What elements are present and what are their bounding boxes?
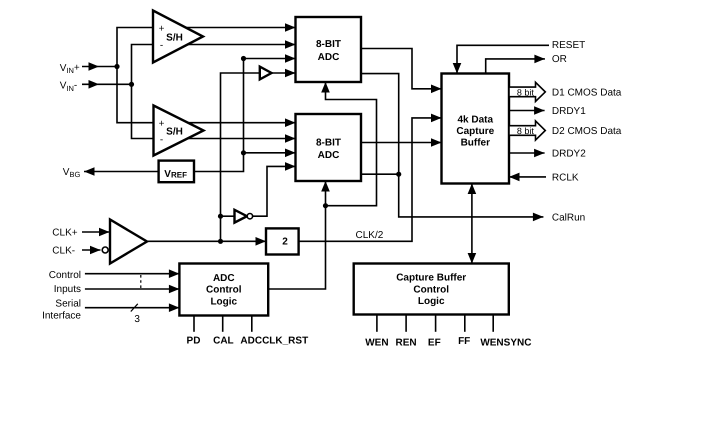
wire S/H1 output1 to ADC1	[186, 27, 296, 29]
svg-text:CLK+: CLK+	[52, 227, 77, 238]
box VREF bandgap reference	[159, 161, 194, 183]
arrowhead control row1	[169, 269, 180, 278]
wire CLK+ lead	[82, 231, 110, 233]
box ADC Control Logic	[179, 264, 268, 316]
box Capture Buffer Control Logic	[354, 264, 509, 315]
svg-text:8-BIT: 8-BIT	[316, 138, 341, 149]
arrowhead OR	[534, 55, 545, 64]
pin stub WEN	[376, 315, 378, 332]
svg-text:+: +	[159, 24, 165, 35]
arrowhead ADC1 in3	[285, 54, 296, 63]
wire ADC2 output2 join	[361, 173, 399, 175]
node VREF top junction	[241, 56, 246, 61]
wire VREF branch to ADC2	[244, 152, 296, 154]
wire S/H1 output2 to ADC1	[186, 44, 296, 46]
svg-text:D1 CMOS Data: D1 CMOS Data	[552, 87, 622, 98]
svg-text:Serial: Serial	[55, 298, 81, 309]
wire 4k buffer to capture control	[471, 184, 473, 264]
pin stub REN	[405, 315, 407, 332]
node VREF mid junction	[241, 150, 246, 155]
svg-text:4k Data: 4k Data	[458, 114, 494, 125]
arrowhead CLK+	[99, 228, 110, 237]
svg-text:REN: REN	[396, 337, 417, 348]
svg-text:Inputs: Inputs	[54, 284, 81, 295]
arrowhead VIN+	[89, 62, 100, 71]
wire VREF net	[194, 59, 296, 172]
wire ADC1 output1 to 4k buffer	[361, 49, 442, 89]
wire RESET into 4k buffer	[457, 45, 549, 73]
pin stub PD	[193, 316, 195, 332]
wire CLK- lead	[82, 249, 101, 251]
svg-text:CalRun: CalRun	[552, 212, 585, 223]
arrowhead ADC1 in1	[285, 23, 296, 32]
svg-text:Logic: Logic	[210, 297, 237, 308]
arrowhead VIN-	[89, 80, 100, 89]
arrowhead capture control down	[468, 253, 477, 264]
wire VIN+ lead	[82, 66, 117, 68]
wire ADC1 output2 down to CalRun	[361, 74, 543, 217]
wire DRDY1	[509, 110, 545, 112]
node inverter tap junction	[218, 214, 223, 219]
wire VIN+ vertical to S/H inputs	[117, 28, 154, 123]
wire VIN- lead	[82, 83, 132, 85]
svg-text:OR: OR	[552, 54, 567, 65]
svg-text:FF: FF	[458, 336, 470, 347]
node clock line junction	[218, 239, 223, 244]
node VIN- junction	[129, 82, 134, 87]
svg-text:-: -	[160, 40, 163, 51]
node VIN+ junction	[114, 64, 119, 69]
bus width slash	[131, 304, 138, 312]
svg-text:WEN: WEN	[365, 337, 388, 348]
svg-text:Control: Control	[206, 285, 242, 296]
dashed ellipsis between control rows	[140, 275, 142, 288]
arrowhead control row2	[169, 285, 180, 294]
box ADC1 8-BIT ADC	[296, 17, 362, 82]
wire small buffer output to ADC1 clock input	[272, 72, 296, 74]
arrowhead ADC2 in2	[285, 134, 296, 143]
op-amp S/H2 bottom sample-hold	[154, 106, 204, 156]
wire VBG lead	[84, 171, 159, 173]
pin stub WENSYNC	[492, 315, 494, 332]
arrowhead serial row	[169, 303, 180, 312]
svg-text:VREF: VREF	[164, 169, 187, 180]
arrowhead buffer in1	[431, 85, 442, 94]
svg-text:3: 3	[134, 314, 140, 325]
wire clock branch to ADC1	[326, 82, 377, 206]
svg-text:WENSYNC: WENSYNC	[480, 337, 531, 348]
bus arrow 8 bit D1	[509, 82, 545, 101]
wire control input row1	[85, 273, 179, 275]
wire control input row2	[85, 288, 179, 290]
svg-text:DRDY2: DRDY2	[552, 149, 586, 160]
svg-text:CLK/2: CLK/2	[356, 230, 384, 241]
svg-text:ADC: ADC	[318, 150, 340, 161]
arrowhead buffer in3	[431, 138, 442, 147]
inverter clock inverter	[235, 210, 248, 223]
buffer small clock buffer	[260, 67, 272, 80]
wire clock vertical to small buffer	[221, 73, 260, 241]
svg-text:2: 2	[282, 236, 288, 247]
wire RCLK into 4k buffer	[509, 176, 546, 178]
wire CLK/2 net to 4k buffer	[299, 118, 442, 241]
svg-text:Control: Control	[49, 270, 81, 281]
arrowhead DRDY2	[534, 149, 545, 158]
svg-text:Buffer: Buffer	[461, 137, 491, 148]
wire inverter input tap	[221, 215, 235, 217]
wire S/H2 output2 to ADC2	[186, 138, 296, 140]
svg-text:Interface: Interface	[42, 310, 81, 321]
svg-text:ADCCLK_RST: ADCCLK_RST	[240, 335, 308, 346]
svg-text:Control: Control	[413, 285, 449, 296]
svg-text:Logic: Logic	[418, 296, 445, 307]
box divide-by-2	[266, 228, 299, 254]
pin stub ADCCLK_RST	[251, 316, 253, 332]
box 4k Data Capture Buffer	[442, 74, 510, 184]
svg-text:ADC: ADC	[318, 52, 340, 63]
arrowhead CalRun	[533, 213, 544, 222]
svg-text:CLK-: CLK-	[52, 246, 75, 257]
svg-text:RESET: RESET	[552, 40, 585, 51]
arrowhead ADC1 in2	[285, 40, 296, 49]
svg-text:D2 CMOS Data: D2 CMOS Data	[552, 126, 622, 137]
pin stub EF	[435, 315, 437, 332]
svg-text:CAL: CAL	[213, 335, 234, 346]
arrowhead ADC2 in4	[285, 162, 296, 171]
wire OR from 4k buffer	[486, 59, 545, 74]
node CalRun junction	[396, 172, 401, 177]
arrowhead ADC2 clock up	[321, 181, 330, 192]
arrowhead div2 input	[256, 237, 267, 246]
arrowhead ADC1 in4	[285, 69, 296, 78]
arrowhead buffer up	[468, 184, 477, 195]
arrowhead VBG left	[84, 167, 95, 176]
arrowhead ADC2 in3	[285, 149, 296, 158]
wire DRDY2	[509, 152, 545, 154]
arrowhead RCLK left	[509, 173, 520, 182]
wire CLK buffer output	[147, 240, 266, 242]
svg-text:+: +	[159, 119, 165, 130]
arrowhead ADC1 clock up	[321, 82, 330, 93]
wire serial interface row	[85, 307, 179, 309]
pin stub FF	[464, 315, 466, 332]
svg-text:-: -	[160, 135, 163, 146]
svg-text:RCLK: RCLK	[552, 172, 579, 183]
arrowhead RESET down	[453, 63, 462, 74]
arrowhead CLK-	[90, 246, 101, 255]
svg-text:8 bit: 8 bit	[517, 126, 535, 136]
svg-text:Capture Buffer: Capture Buffer	[396, 273, 466, 284]
svg-text:8-BIT: 8-BIT	[316, 39, 341, 50]
svg-text:S/H: S/H	[166, 127, 183, 138]
box ADC2 8-BIT ADC	[296, 114, 362, 181]
wire VIN- vertical to S/H inputs	[132, 45, 154, 139]
wire ADC control clock riser to ADC2	[268, 181, 325, 289]
pin stub CAL	[222, 316, 224, 332]
svg-text:8 bit: 8 bit	[517, 87, 535, 97]
arrowhead ADC2 in1	[285, 118, 296, 127]
svg-text:Capture: Capture	[456, 126, 494, 137]
svg-text:S/H: S/H	[166, 33, 183, 44]
wire inverter output to ADC2 clock input	[253, 166, 296, 216]
svg-text:EF: EF	[428, 337, 441, 348]
svg-text:ADC: ADC	[213, 273, 235, 284]
wire S/H2 output1 to ADC2	[186, 122, 296, 124]
bubble CLK- inversion	[102, 247, 108, 253]
buffer clock input amplifier	[110, 220, 147, 264]
svg-text:DRDY1: DRDY1	[552, 106, 586, 117]
svg-text:PD: PD	[187, 335, 201, 346]
node ADC clock junction	[323, 203, 328, 208]
wire ADC2 output1 to 4k buffer	[361, 142, 442, 144]
bus arrow 8 bit D2	[509, 121, 545, 140]
arrowhead buffer in2 CLK/2	[431, 114, 442, 123]
arrowhead DRDY1	[534, 106, 545, 115]
op-amp S/H1 top sample-hold	[153, 11, 203, 63]
